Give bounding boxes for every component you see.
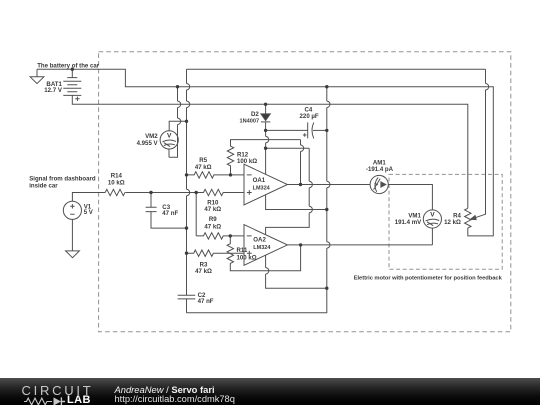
battery BAT1 plates	[63, 78, 81, 96]
diode D2 cathode bar	[261, 121, 270, 123]
svg-text:LM324: LM324	[253, 185, 271, 191]
junction R5 right / R12 bottom (OA1 minus input)	[229, 173, 232, 176]
wire C4 minus lead to ground rail	[313, 129, 327, 131]
junction D2 anode on +12V rail	[264, 103, 267, 106]
wire R12 feedback drop to OA1 output	[300, 140, 302, 185]
svg-text:R5: R5	[199, 157, 207, 164]
resistor R4 (potentiometer body)	[465, 208, 471, 228]
junction VM2 minus branch on ground rail	[176, 85, 179, 88]
wire ground net: top rail, right drop to R4 bottom	[37, 69, 493, 236]
voltmeter VM1	[423, 210, 441, 228]
junction R11 feedback on OA2 output	[299, 243, 302, 246]
svg-text:191.4 mV: 191.4 mV	[395, 219, 422, 226]
resistor R3	[187, 250, 245, 256]
wire VM2 minus branch from ground rail	[169, 87, 178, 158]
wire V1 minus lead	[71, 219, 73, 251]
svg-text:100 kΩ: 100 kΩ	[237, 158, 257, 165]
resistor R10	[196, 189, 244, 195]
resistor R14	[105, 189, 125, 195]
svg-text:D2: D2	[251, 111, 259, 118]
svg-text:The battery of the car: The battery of the car	[37, 62, 100, 69]
capacitor C2	[178, 295, 196, 299]
wire hops of V+ branch over OA1 output and OA1 V- wire	[309, 181, 312, 212]
svg-text:inside car: inside car	[29, 182, 58, 189]
wire V1 plus lead to R14	[72, 193, 105, 202]
junction D2 cathode / C4 / OA1 V+	[264, 129, 267, 132]
resistor R9	[196, 233, 244, 239]
junction OA2 V- on ground rail	[325, 287, 328, 290]
svg-text:47 kΩ: 47 kΩ	[195, 164, 212, 171]
svg-text:47 kΩ: 47 kΩ	[204, 206, 221, 213]
svg-text:12.7 V: 12.7 V	[44, 87, 63, 94]
resistor R5	[187, 172, 245, 178]
capacitor C4 curved minus plate	[312, 122, 314, 138]
outer dashed border	[99, 52, 511, 332]
battery BAT1 plus mark	[75, 97, 79, 101]
svg-text:47 kΩ: 47 kΩ	[204, 223, 221, 230]
svg-text:12 kΩ: 12 kΩ	[444, 219, 461, 226]
svg-text:OA1: OA1	[253, 177, 266, 184]
op-amp OA1 input marks	[247, 175, 252, 195]
ammeter AM1	[370, 175, 388, 193]
op-amp OA1 triangle	[244, 164, 287, 205]
diode D2 triangle	[261, 114, 270, 121]
svg-text:1N4007: 1N4007	[239, 118, 259, 124]
wire node WIPER: elevated top run	[187, 68, 486, 70]
wire OA1 V+ pin	[265, 130, 267, 174]
resistor R12 (OA1 feedback)	[227, 140, 300, 175]
op-amp OA2 triangle	[244, 225, 287, 266]
wire hops of ground rail over +12V rail, OA1 output, OA2 output	[327, 101, 330, 248]
wire OA1 output to AM1	[287, 184, 370, 186]
svg-text:LM324: LM324	[253, 245, 271, 251]
svg-text:220 µF: 220 µF	[300, 113, 319, 120]
svg-text:V: V	[430, 212, 435, 219]
wire V+ node D2 to C4	[266, 129, 308, 131]
ground GND2 (under V1)	[66, 251, 80, 258]
wire AM1 to VM1 top	[388, 185, 432, 211]
svg-text:4.955 V: 4.955 V	[137, 140, 159, 147]
wire hop of R12 drop over V+ branch	[301, 145, 304, 151]
dashed box: electric motor with potentiometer	[389, 174, 502, 269]
wire node WIPER: left bus down to C2 top	[186, 69, 188, 313]
junction center ground rail on top ground rail	[325, 85, 328, 88]
wire ground net: center vertical rail down to C2 bottom	[186, 87, 326, 313]
wire OA2 output to VM1	[287, 244, 432, 246]
resistor R11 (OA2 feedback) with loop to OA2 output	[227, 236, 301, 271]
svg-text:V: V	[167, 133, 172, 140]
diode D2 anode lead	[265, 104, 267, 114]
svg-text:47 kΩ: 47 kΩ	[195, 268, 212, 275]
capacitor C4 plus plate	[307, 122, 309, 138]
voltmeter VM2	[160, 131, 178, 149]
diode D2 cathode lead	[265, 122, 267, 130]
wire node WIPER: right riser to R4 wiper	[485, 69, 487, 214]
wire hop of OA2 V- pin over R11 loop	[266, 268, 269, 274]
wire OA1 V- pin to ground rail	[266, 195, 327, 210]
capacitor C3	[146, 207, 157, 211]
wire battery negative tap	[71, 69, 73, 77]
junction R5 left on WIPER bus	[185, 173, 188, 176]
wire hop of WIPER riser over ground rail	[486, 84, 489, 90]
junction R3 left on WIPER bus	[185, 252, 188, 255]
R4 wiper arrowhead	[471, 216, 477, 220]
junction C3 bottom on WIPER bus	[185, 226, 188, 229]
wire hops of WIPER bus over ground rail, +12V rail, signal wire	[187, 84, 190, 196]
capacitor C4 plus mark	[303, 133, 307, 137]
wire signal node from R14 to R10	[125, 192, 196, 194]
wire hops of VM2 minus branch over +12V rail and VM2 plus wire	[178, 101, 181, 124]
svg-text:-191.4 pA: -191.4 pA	[366, 166, 394, 173]
svg-text:R9: R9	[209, 216, 217, 223]
svg-text:100 kΩ: 100 kΩ	[237, 254, 257, 261]
wire signal bus R10 to R9	[195, 193, 197, 236]
svg-text:VM2: VM2	[145, 133, 158, 140]
svg-text:R11: R11	[237, 247, 248, 254]
junction R10 left on signal wire	[195, 191, 198, 194]
ground GND1 (battery negative)	[30, 77, 44, 84]
R4 wiper arm	[474, 214, 486, 218]
svg-text:47 nF: 47 nF	[198, 298, 214, 305]
svg-text:OA2: OA2	[253, 237, 266, 244]
wire VM2 plus lead to WIPER bus	[169, 121, 186, 131]
wire VM1 bottom lead	[431, 228, 433, 245]
junction OA1 V- on ground rail	[325, 208, 328, 211]
junction R9 right / R11 top (OA2 minus input)	[229, 234, 232, 237]
wire ground GND1 riser	[36, 69, 38, 77]
op-amp OA2 input marks	[247, 236, 252, 256]
svg-text:5 V: 5 V	[84, 209, 94, 216]
svg-text:47 nF: 47 nF	[162, 210, 178, 217]
wire C3 top lead	[150, 193, 152, 208]
junction OA1 V+ / V+ branch	[264, 147, 267, 150]
junction R12 feedback on OA1 output	[299, 183, 302, 186]
voltage source V1	[63, 201, 81, 219]
wire C3 bottom lead to WIPER bus	[151, 212, 187, 229]
svg-text:10 kΩ: 10 kΩ	[108, 179, 125, 186]
wire +12V rail from BAT1 plus to R4 top	[72, 95, 468, 208]
junction C3 top on signal wire	[149, 191, 152, 194]
junction VM2 plus on WIPER bus	[185, 120, 188, 123]
junction C4 minus on ground rail	[325, 129, 328, 132]
wire hop of OA1 V+ pin over R12 top wire	[266, 136, 269, 142]
wire V+ branch to OA2 V+ pin	[266, 148, 310, 235]
junction battery tap on ground wire	[71, 68, 74, 71]
svg-text:Elettric motor with potentiome: Elettric motor with potentiometer for po…	[354, 275, 503, 281]
wire OA2 V- pin to ground rail	[266, 255, 327, 288]
